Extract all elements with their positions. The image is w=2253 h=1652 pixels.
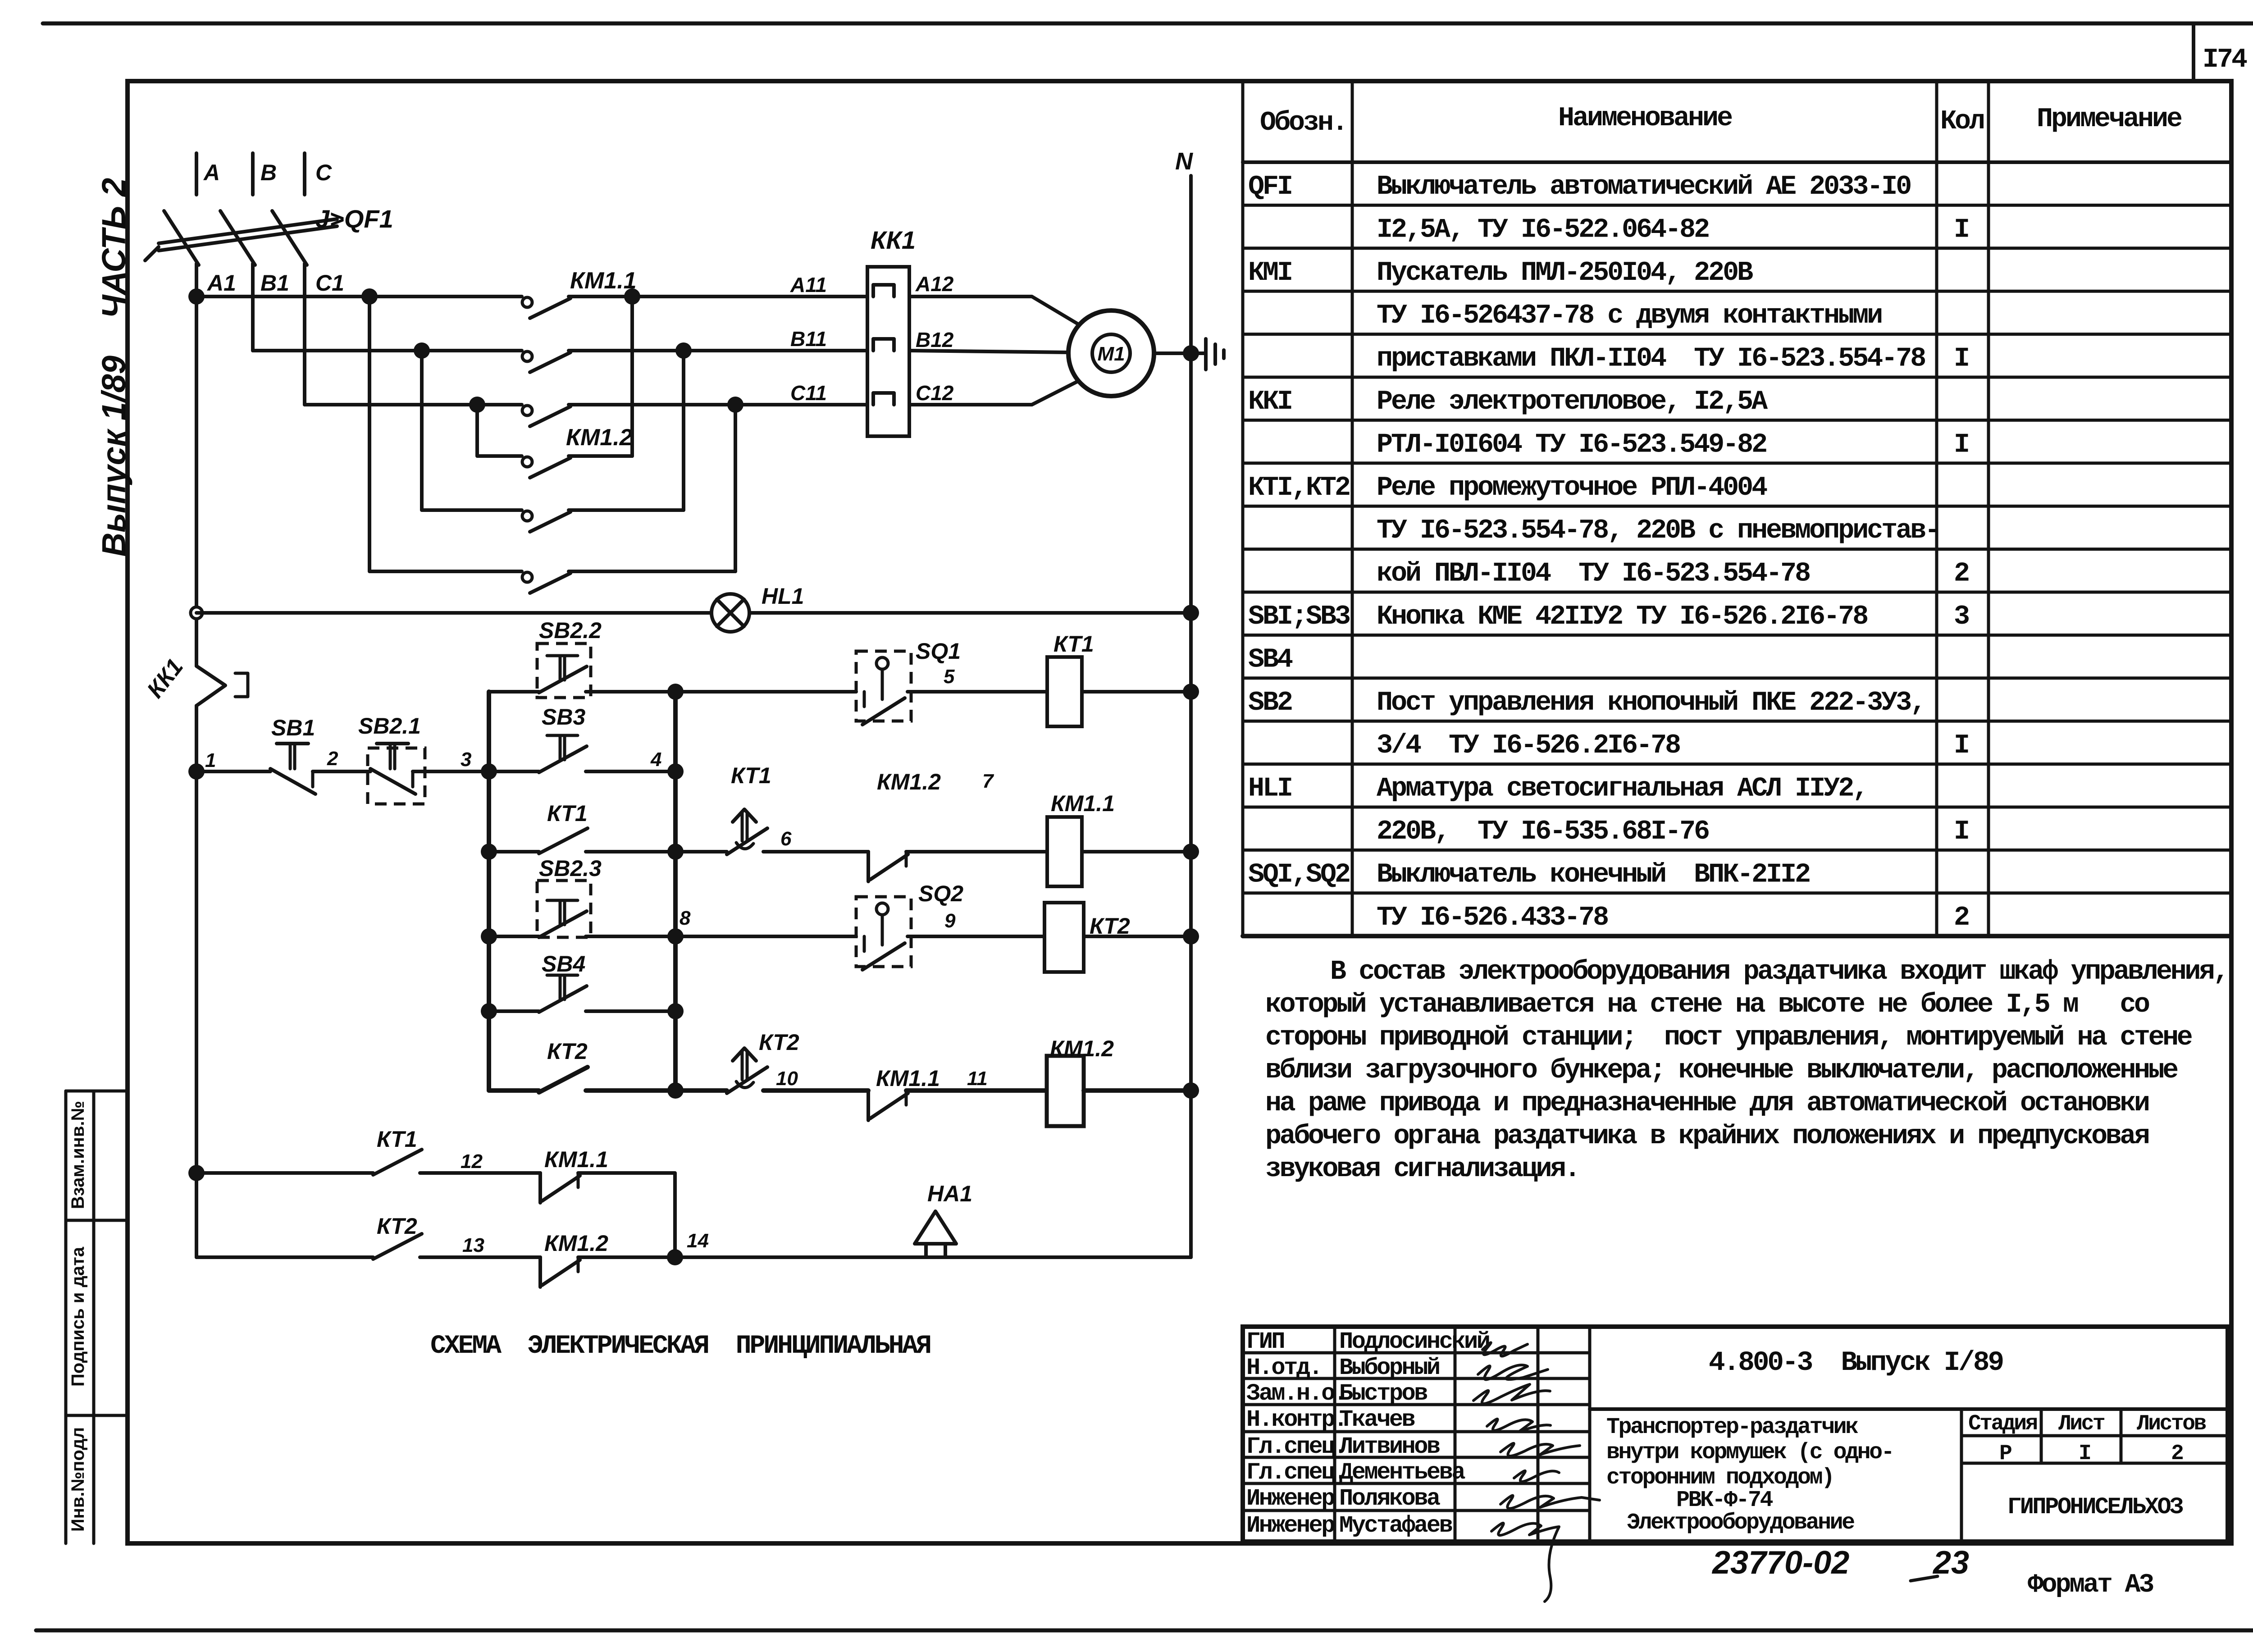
svg-text:B: B [260,160,277,185]
table header [1260,103,2182,138]
svg-text:C: C [315,160,332,185]
svg-text:КТ2: КТ2 [759,1030,799,1055]
descriptive paragraph [1265,957,2227,1185]
svg-text:на раме привода и предназначен: на раме привода и предназначенные для ав… [1265,1088,2148,1119]
contact KT2 (aux NO) [489,1088,539,1093]
svg-text:КМ1.1: КМ1.1 [876,1066,940,1091]
svg-text:Наименование: Наименование [1558,103,1732,134]
svg-text:I74: I74 [2203,45,2247,75]
node 12 [420,1171,540,1175]
svg-text:1: 1 [205,749,216,771]
title block signature rows [1246,1328,1489,1539]
phase input C [303,153,306,195]
svg-text:23770-02: 23770-02 [1711,1545,1849,1581]
svg-text:11: 11 [967,1068,988,1090]
svg-text:рабочего органа раздатчика в к: рабочего органа раздатчика в крайних пол… [1265,1121,2148,1152]
svg-text:N: N [1175,148,1193,175]
svg-text:I: I [2079,1442,2090,1466]
wire QF1 to B1 [251,264,255,351]
svg-text:220В, ТУ I6-535.68I-76: 220В, ТУ I6-535.68I-76 [1377,817,1709,847]
svg-text:6: 6 [780,828,792,850]
phase input A [195,153,198,195]
wire A12 to motor [909,297,1083,327]
wire to KM1.2 coil [906,1088,1047,1093]
pushbutton SB2.2 [537,643,591,698]
contact KT2 (row 13) [373,1234,422,1259]
wire KT1 coil to N [1082,690,1191,694]
svg-text:КТI,КТ2: КТI,КТ2 [1248,473,1350,503]
svg-text:КМ1.1: КМ1.1 [1051,791,1115,816]
svg-text:3: 3 [461,748,471,771]
svg-text:Инженер: Инженер [1246,1485,1334,1512]
svg-text:Зам.н.о.: Зам.н.о. [1246,1380,1346,1407]
svg-text:Дементьева: Дементьева [1339,1459,1465,1486]
wire row 12 [188,1165,205,1181]
svg-text:C12: C12 [916,381,954,405]
svg-text:КМI: КМI [1248,258,1291,288]
svg-text:Взам.инв.№: Взам.инв.№ [68,1101,88,1209]
svg-text:SB4: SB4 [1248,644,1293,675]
svg-text:B12: B12 [916,328,954,351]
svg-text:Полякова: Полякова [1339,1485,1440,1512]
wire N bus [1189,176,1193,1257]
wire HL1 row [196,611,711,615]
svg-text:SB3: SB3 [542,704,585,730]
svg-text:ГИП: ГИП [1246,1328,1284,1355]
time contact KT2 (delayed) [675,1088,727,1093]
svg-text:КК1: КК1 [871,226,916,254]
wire KM1.1 coil to N [1082,850,1191,853]
svg-text:внутри кормушек (с одно-: внутри кормушек (с одно- [1606,1440,1893,1465]
sheet number box 174 [2192,23,2195,81]
wire row 13 [196,1255,373,1259]
svg-text:8: 8 [680,907,691,929]
svg-text:КТ2: КТ2 [547,1039,588,1064]
pushbutton SB1 [270,769,315,794]
contact KM1.2 (NC row 13) [538,1257,542,1287]
left margin stamp boxes [66,1091,128,1543]
pushbutton SB2.1 [368,748,425,804]
wire left bus (phase A continuation) [195,297,198,666]
wire QF1 to C1 [303,264,306,405]
contactor contact KM1.2 pole2 [522,511,532,521]
svg-text:стороны приводной станции; по: стороны приводной станции; пост управлен… [1265,1022,2192,1053]
wire SQ2 to KT2 coil [908,935,1044,938]
wire row B1 [253,349,522,352]
svg-text:РТЛ-I0I604 ТУ I6-523.549-82: РТЛ-I0I604 ТУ I6-523.549-82 [1377,429,1766,460]
svg-text:12: 12 [461,1150,483,1173]
svg-text:РВК-Ф-74: РВК-Ф-74 [1676,1488,1773,1513]
svg-text:I2,5А, ТУ I6-522.064-82: I2,5А, ТУ I6-522.064-82 [1377,214,1709,245]
wire row 1 [196,770,270,773]
svg-text:9: 9 [944,910,956,932]
svg-text:B11: B11 [790,327,827,351]
contact KM1.1 (NC interlock row 10) [867,1091,870,1120]
svg-text:Стадия: Стадия [1968,1412,2037,1436]
ground symbol [1191,351,1205,355]
contactor contact KM1.2 pole3 [522,572,532,582]
svg-text:Листов: Листов [2137,1412,2206,1436]
wire to KM1.1 coil [906,850,1047,853]
contactor contact KM1.2 pole1 [522,457,532,467]
svg-text:Инженер: Инженер [1246,1512,1334,1539]
svg-text:Обозн.: Обозн. [1260,108,1346,138]
svg-text:СХЕМА ЭЛЕКТРИЧЕСКАЯ ПРИНЦИПИ: СХЕМА ЭЛЕКТРИЧЕСКАЯ ПРИНЦИПИАЛЬНАЯ [430,1332,930,1361]
svg-text:ТУ I6-523.554-78, 220В с пневм: ТУ I6-523.554-78, 220В с пневмопристав- [1377,516,1939,546]
terminal circle HL1 branch [191,607,202,619]
svg-text:КМ1.1: КМ1.1 [570,268,637,294]
contact KM1.2 (NC interlock row 6) [867,852,870,881]
wire KM1.2 pole2 to row B [682,351,685,510]
svg-text:НА1: НА1 [927,1181,972,1206]
lamp HL1 [711,594,749,632]
wire B12 to motor [909,351,1069,352]
svg-text:I: I [1954,730,1968,761]
contact KT1 (aux NO) [489,850,539,853]
svg-text:5: 5 [944,666,955,688]
svg-text:Формат А3: Формат А3 [2028,1570,2153,1600]
limit switch SQ2 [856,897,911,967]
svg-text:13: 13 [462,1234,484,1256]
svg-text:SQ2: SQ2 [918,881,963,906]
phase input B [251,153,255,195]
wire left control bus [487,692,491,1091]
svg-text:Выборный: Выборный [1339,1355,1439,1381]
wire B1 to KM1.2 pole2 [414,342,430,359]
svg-text:ТУ I6-526.433-78: ТУ I6-526.433-78 [1377,903,1608,933]
svg-text:Транспортер-раздатчик: Транспортер-раздатчик [1606,1415,1858,1440]
wire KT2 coil to N [1084,935,1191,938]
svg-text:HL1: HL1 [762,584,804,609]
svg-text:КМ1.2: КМ1.2 [877,769,941,794]
title block grid [1243,1327,2228,1542]
svg-text:В состав электрооборудования р: В состав электрооборудования раздатчика … [1330,957,2227,987]
svg-text:Выпуск 1/89 ЧАСТЬ 2: Выпуск 1/89 ЧАСТЬ 2 [95,178,132,557]
svg-text:J>QF1: J>QF1 [315,205,393,233]
svg-text:A1: A1 [206,270,236,296]
svg-text:A11: A11 [790,273,827,297]
title block texts [1606,1347,2206,1536]
svg-text:КТ1: КТ1 [377,1127,417,1152]
pushbutton SB2.3 [537,881,591,937]
svg-text:который устанавливается на сте: который устанавливается на стене на высо… [1265,990,2149,1020]
node 8 [586,935,856,938]
svg-text:Выключатель автоматический АЕ: Выключатель автоматический АЕ 2033-I0 [1377,172,1911,202]
wire row A1 [196,295,522,298]
svg-text:4.800-3 Выпуск I/89: 4.800-3 Выпуск I/89 [1709,1347,2003,1378]
svg-text:Выключатель конечный ВПК-2II2: Выключатель конечный ВПК-2II2 [1377,859,1810,890]
svg-text:C1: C1 [315,270,344,296]
svg-text:Гл.спец.: Гл.спец. [1246,1433,1346,1460]
svg-text:КТ1: КТ1 [547,801,588,826]
svg-text:сторонним подходом): сторонним подходом) [1606,1465,1833,1491]
svg-text:10: 10 [776,1068,798,1090]
svg-text:Подлосинский: Подлосинский [1339,1328,1489,1355]
svg-text:Примечание: Примечание [2037,104,2182,135]
svg-text:Кнопка КМЕ 42IIУ2 ТУ I6-526.2I: Кнопка КМЕ 42IIУ2 ТУ I6-526.2I6-78 [1377,602,1867,632]
svg-text:Быстров: Быстров [1339,1380,1427,1407]
svg-text:3/4 ТУ I6-526.2I6-78: 3/4 ТУ I6-526.2I6-78 [1377,730,1680,761]
svg-text:ГИПРОНИСЕЛЬХОЗ: ГИПРОНИСЕЛЬХОЗ [2007,1494,2183,1520]
svg-text:SB2.1: SB2.1 [358,713,421,739]
svg-text:2: 2 [2171,1442,2183,1466]
thermal contact KK1 [196,666,225,706]
svg-text:C11: C11 [790,381,827,405]
svg-text:Реле электротепловое, I2,5А: Реле электротепловое, I2,5А [1377,387,1768,417]
svg-text:Инв.№подл: Инв.№подл [68,1427,88,1532]
svg-text:Н.отд.: Н.отд. [1246,1355,1321,1381]
wire row 14 [578,1255,1191,1259]
svg-text:SBI;SB3: SBI;SB3 [1248,602,1350,632]
thermal relay KK1 heater block [867,267,909,436]
svg-text:2: 2 [1954,903,1969,933]
relay coil KT2 [1044,903,1084,972]
svg-text:I: I [1954,344,1968,374]
limit switch SQ1 [856,651,911,721]
svg-text:SQI,SQ2: SQI,SQ2 [1248,859,1350,890]
wire KM1.2 pole1 to row A [630,297,634,456]
wire SQ1 to KT1 coil [908,690,1047,694]
contactor coil KM1.2 [1047,1056,1084,1126]
wire motor to N [1154,351,1191,355]
svg-text:QFI: QFI [1248,172,1291,202]
svg-text:A: A [203,160,220,185]
svg-text:КТ2: КТ2 [377,1214,417,1239]
svg-text:ТУ I6-526437-78 с двумя контак: ТУ I6-526437-78 с двумя контактными [1377,301,1881,331]
contact KT1 (row 12) [373,1150,422,1175]
svg-text:Пост управления кнопочный ПКЕ: Пост управления кнопочный ПКЕ 222-3У3, [1377,688,1925,718]
svg-text:Реле промежуточное РПЛ-4004: Реле промежуточное РПЛ-4004 [1377,473,1767,503]
svg-text:SB2.3: SB2.3 [539,856,602,881]
svg-text:КТ1: КТ1 [731,763,771,788]
wire right control bus [673,692,678,1091]
svg-text:3: 3 [1954,602,1969,632]
node A1 [188,288,205,305]
wire QF1 to A1 [195,264,198,297]
svg-text:7: 7 [982,770,994,792]
svg-text:КМ1.2: КМ1.2 [566,424,633,451]
wire row 12 to node 14 [578,1173,675,1257]
svg-text:14: 14 [687,1230,709,1252]
motor M1 [1068,310,1154,396]
svg-text:I: I [1954,429,1968,460]
node 1 [188,763,205,780]
contactor contact KM1.1 pole C [522,406,532,415]
signature squiggles [1473,1342,1600,1602]
node 14 [667,1249,683,1265]
wire row C1 [305,403,522,406]
sheet bottom edge [36,1629,2253,1633]
pushbutton SB3 [539,746,587,772]
sheet top edge [43,22,2253,26]
svg-text:КМ1.1: КМ1.1 [544,1147,608,1172]
svg-text:Пускатель ПМЛ-250I04, 220В: Пускатель ПМЛ-250I04, 220В [1377,258,1753,288]
contactor contact KM1.1 pole A [522,297,532,307]
svg-text:Электрооборудование: Электрооборудование [1627,1510,1854,1536]
svg-text:SB2: SB2 [1248,688,1292,718]
wire SB2.2 to SQ1 [586,690,856,694]
svg-text:Гл.спец.: Гл.спец. [1246,1459,1346,1486]
svg-text:Ткачев: Ткачев [1339,1406,1415,1433]
svg-text:SB1: SB1 [271,715,315,740]
wire A1 to KM1.2 pole3 [361,288,378,305]
wire KM1.2 coil to N [1084,1088,1191,1093]
contactor coil KM1.1 [1047,817,1082,886]
svg-text:КМ1.2: КМ1.2 [1050,1036,1114,1061]
svg-text:Литвинов: Литвинов [1339,1433,1440,1460]
wire SB3 row [489,770,539,773]
svg-text:звуковая сигнализация.: звуковая сигнализация. [1265,1154,1578,1185]
node 4 [667,763,684,780]
component table grid [1243,81,2231,936]
svg-text:Р: Р [1999,1442,2011,1466]
svg-text:HLI: HLI [1248,774,1291,804]
time contact KT1 (delayed) [675,850,727,853]
node 3 [413,770,489,773]
pushbutton SB4 [489,1009,539,1013]
svg-text:Кол: Кол [1940,106,1984,137]
svg-text:SQ1: SQ1 [916,639,961,664]
svg-text:Подпись и дата: Подпись и дата [68,1246,88,1387]
svg-text:2: 2 [327,748,338,770]
table rows text [1248,172,1969,933]
relay coil KT1 [1047,657,1082,726]
wire C12 to motor [909,379,1083,405]
svg-text:A12: A12 [915,272,954,296]
svg-text:B1: B1 [260,270,289,296]
svg-text:Мустафаев: Мустафаев [1339,1512,1452,1539]
svg-text:2: 2 [1954,559,1969,589]
wire KM1.2 pole3 to row C [734,405,737,571]
svg-text:Лист: Лист [2058,1412,2105,1436]
svg-text:Арматура светосигнальная АСЛ I: Арматура светосигнальная АСЛ IIУ2, [1377,774,1867,804]
svg-text:I: I [1954,817,1968,847]
wire C1 to KM1.2 pole1 [469,397,485,413]
circuit breaker QF1 [145,211,337,265]
contactor contact KM1.1 pole B [522,351,532,361]
svg-text:приставками ПКЛ-II04 ТУ I6-52: приставками ПКЛ-II04 ТУ I6-523.554-78 [1377,344,1925,374]
node 13 [420,1255,540,1259]
svg-text:Н.контр.: Н.контр. [1246,1406,1346,1433]
svg-text:ККI: ККI [1248,387,1291,417]
svg-text:кой ПВЛ-II04 ТУ I6-523.554-78: кой ПВЛ-II04 ТУ I6-523.554-78 [1377,559,1810,589]
svg-text:вблизи загрузочного бункера; к: вблизи загрузочного бункера; конечные вы… [1265,1055,2178,1086]
svg-text:4: 4 [650,748,661,771]
svg-text:SB4: SB4 [542,951,585,977]
svg-text:КТ1: КТ1 [1054,631,1094,657]
svg-text:SB2.2: SB2.2 [539,618,602,643]
svg-text:КМ1.2: КМ1.2 [544,1231,608,1256]
svg-text:М1: М1 [1097,343,1125,365]
svg-text:I: I [1954,214,1968,245]
sounder HA1 [915,1211,956,1244]
contact KM1.1 (NC row 12) [538,1173,542,1203]
